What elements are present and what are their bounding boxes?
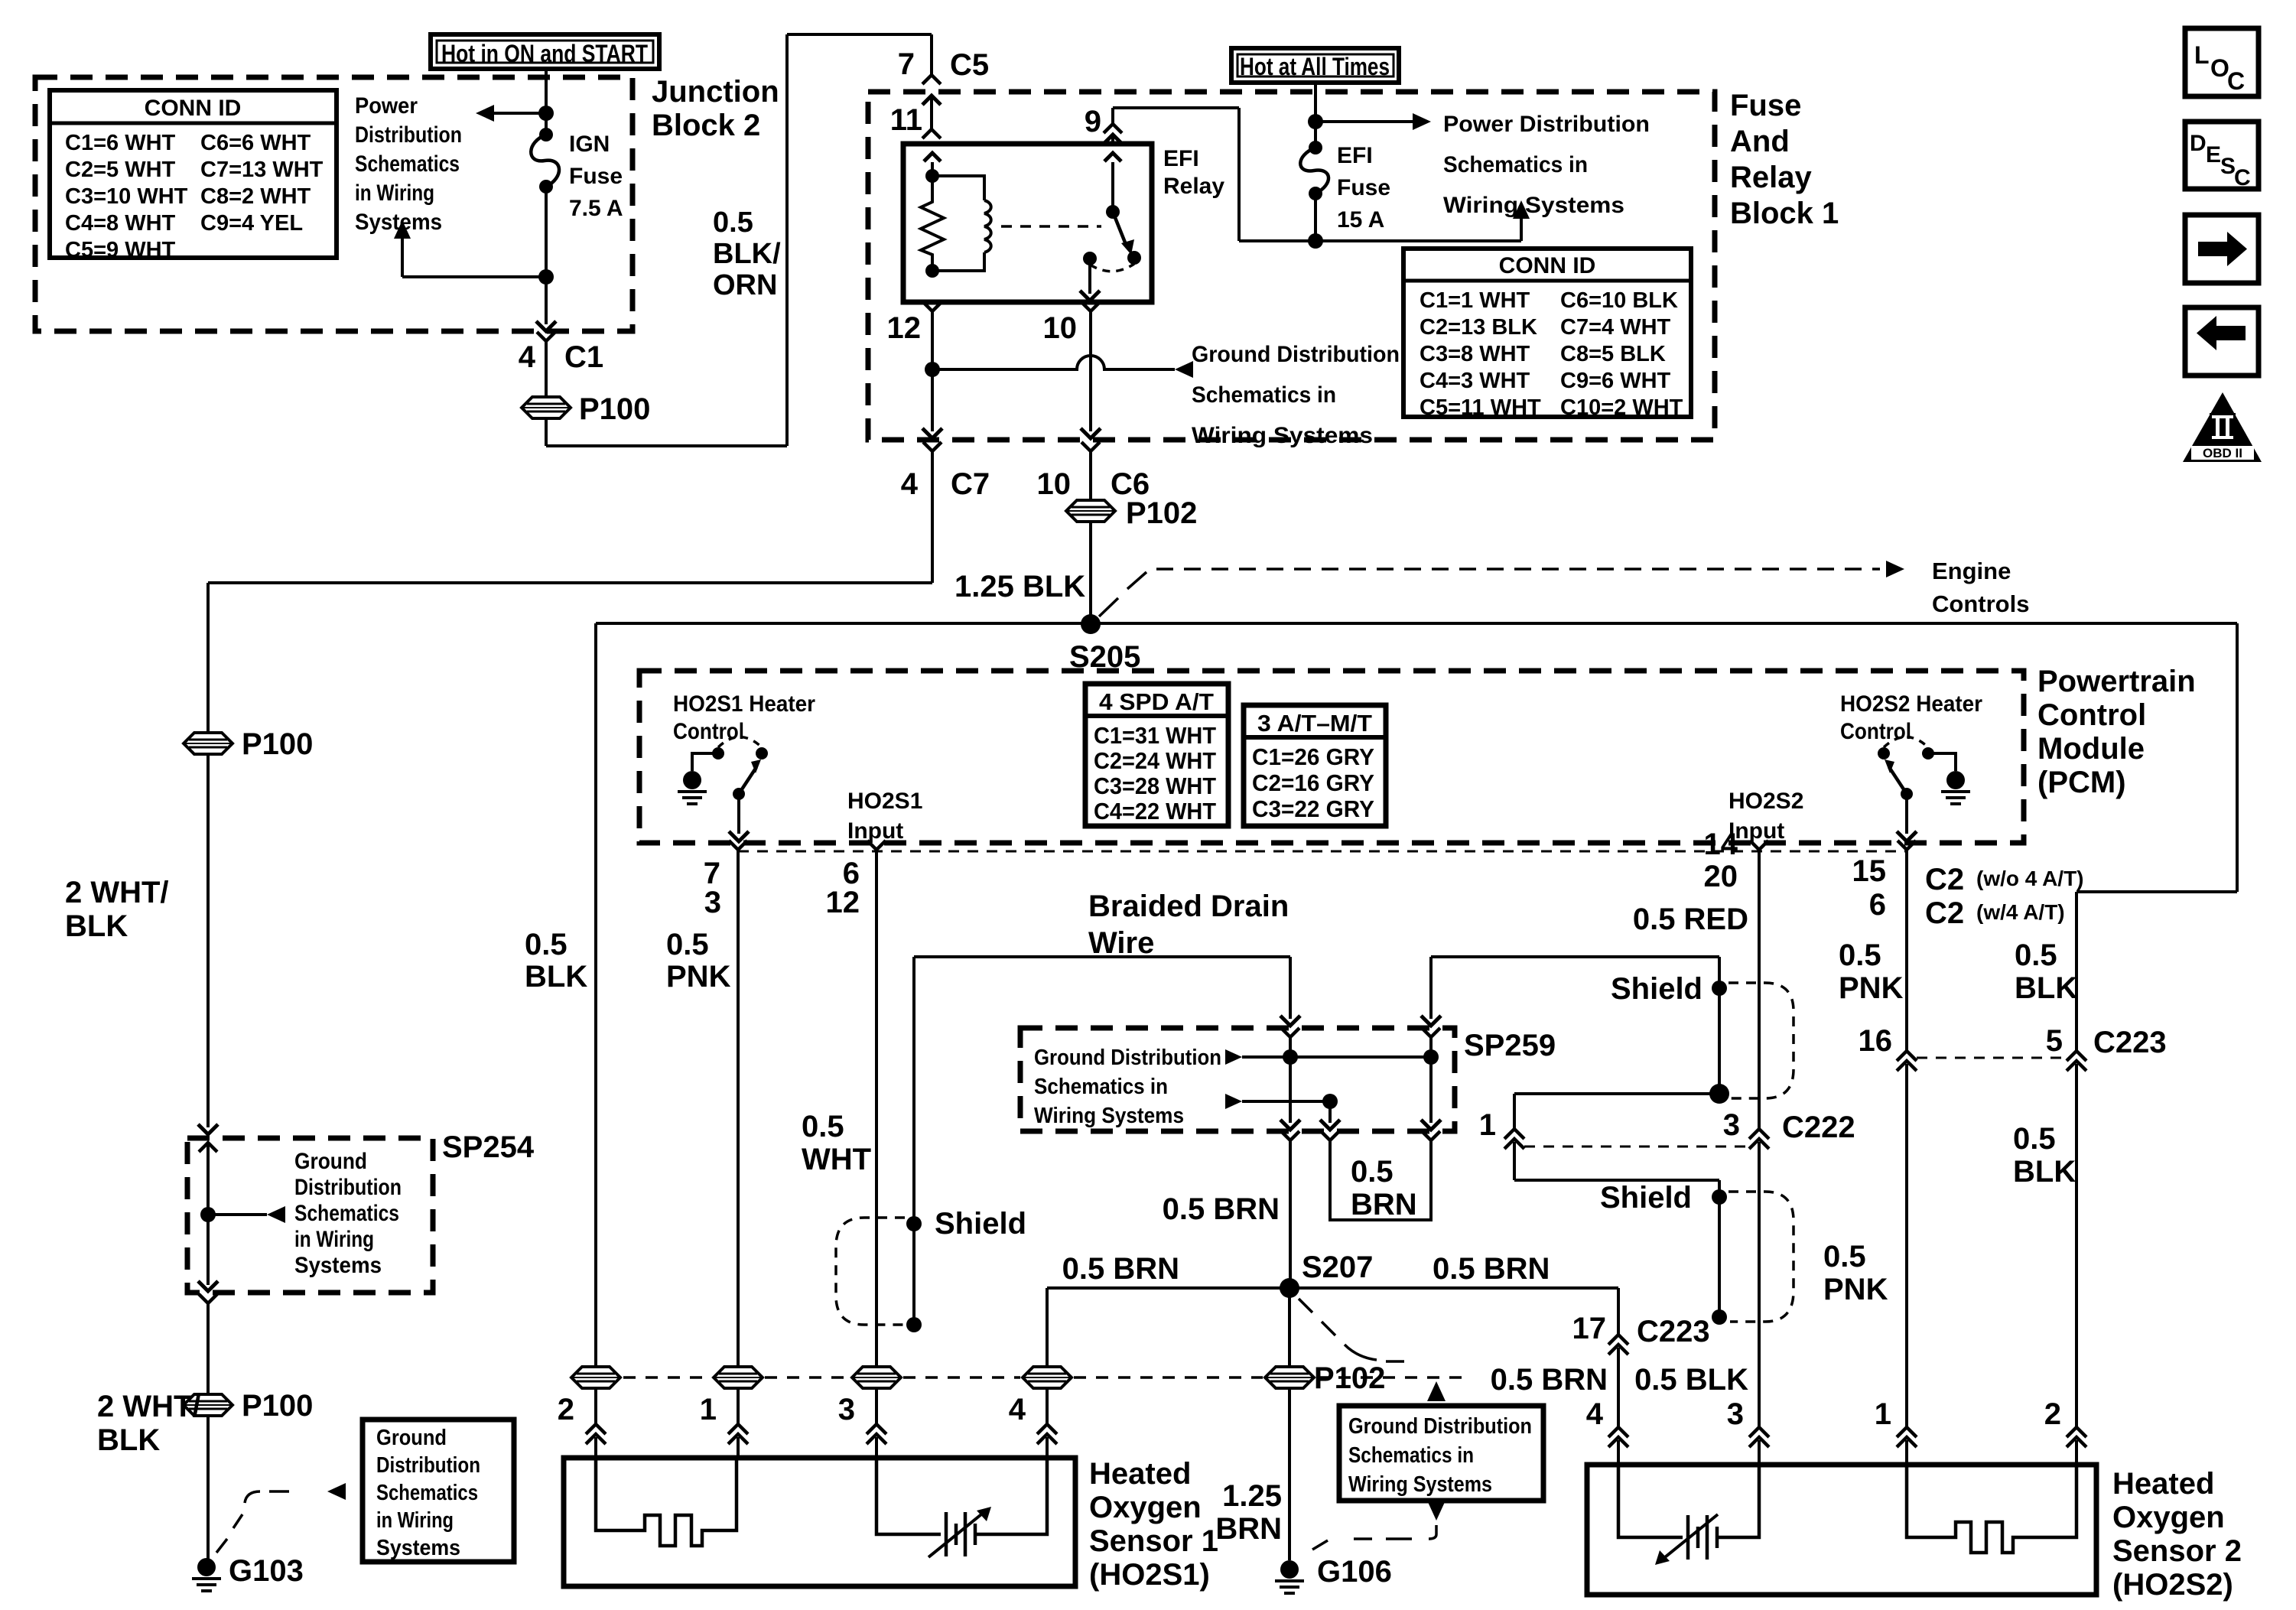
dashed leader S207 to ground note [1299, 1299, 1312, 1312]
svg-text:C223: C223 [2093, 1026, 2167, 1059]
svg-text:C2: C2 [1925, 896, 1964, 930]
svg-text:0.5 BRN: 0.5 BRN [1491, 1363, 1608, 1397]
svg-text:BLK: BLK [2015, 971, 2077, 1005]
svg-text:Schematics in: Schematics in [1443, 152, 1588, 177]
shield node upper (HO2S1) [906, 1216, 922, 1231]
svg-text:C2=16 GRY: C2=16 GRY [1252, 769, 1374, 796]
flag box: Hot at All Times [1231, 48, 1399, 83]
connector PCM pin 6/12 (HO2S1 input) [867, 841, 886, 850]
svg-text:3: 3 [1727, 1397, 1744, 1431]
wire 0.5 PNK to HO2S1 pin 1 [737, 866, 740, 1367]
svg-text:Ground Distribution: Ground Distribution [1034, 1046, 1221, 1070]
svg-text:C4=3 WHT: C4=3 WHT [1420, 369, 1530, 393]
svg-text:EFI: EFI [1337, 143, 1373, 168]
ground G106 [1280, 1560, 1299, 1579]
pin 11 male connector into block [930, 96, 933, 129]
icon box DESC [2185, 122, 2259, 189]
svg-text:C2: C2 [1925, 863, 1964, 896]
tables 4 SPD A/T connector ids [1085, 684, 1228, 826]
svg-text:Engine: Engine [1932, 558, 2011, 584]
svg-text:PNK: PNK [666, 960, 731, 994]
wire C1 to P100 [545, 361, 548, 396]
svg-text:Fuse: Fuse [1337, 175, 1390, 200]
svg-text:4: 4 [519, 340, 536, 374]
relay pin 10 wire inside box [1088, 259, 1091, 294]
svg-text:P100: P100 [242, 727, 313, 761]
arrow up to note [1520, 218, 1523, 241]
U loop 0.5 BRN below SP259 [1321, 1131, 1339, 1140]
svg-text:3 A/T–M/T: 3 A/T–M/T [1257, 710, 1372, 737]
svg-text:C4=8 WHT: C4=8 WHT [65, 211, 176, 236]
wire pin 12 to block edge [931, 369, 934, 431]
HO2S1 pin stubs and chevrons [594, 1388, 597, 1424]
svg-text:1: 1 [1479, 1108, 1496, 1142]
connector C1 pin 4 (Junction Block 2 output) [537, 332, 555, 341]
SP259 bus row 1 [1225, 1049, 1242, 1065]
relay switch common (pin 9) [1106, 205, 1120, 219]
connector pass-through (HO2S1 pin 3 wire) [852, 1367, 901, 1388]
svg-text:Junction: Junction [652, 75, 779, 109]
svg-text:Ground: Ground [294, 1149, 367, 1174]
svg-text:Distribution: Distribution [376, 1453, 480, 1478]
svg-text:0.5: 0.5 [1351, 1155, 1394, 1189]
relay contact dashed arc [1090, 264, 1134, 272]
wire C222 pin1 to lower shield [1514, 1179, 1719, 1182]
svg-text:0.5 BLK: 0.5 BLK [1634, 1363, 1748, 1397]
relay switch blade with arrow [1113, 212, 1125, 242]
relay box EFI Relay [903, 144, 1152, 302]
svg-text:Hot at All Times: Hot at All Times [1240, 53, 1390, 80]
svg-text:And: And [1730, 125, 1790, 158]
shield node (HO2S2 lower) [1712, 1189, 1727, 1205]
svg-text:E: E [2206, 142, 2221, 168]
relay coil [932, 176, 984, 200]
svg-text:C3=22 GRY: C3=22 GRY [1252, 795, 1374, 822]
svg-text:C10=2 WHT: C10=2 WHT [1560, 395, 1683, 420]
svg-text:HO2S1: HO2S1 [847, 789, 922, 814]
svg-text:Ground Distribution: Ground Distribution [1348, 1414, 1532, 1439]
connector P102 (pass-through) [1066, 500, 1115, 522]
arrow to Power Distribution Schematics (right) [1315, 120, 1413, 123]
svg-text:Wiring Systems: Wiring Systems [1034, 1104, 1184, 1128]
inline connector row dashed gang line [623, 1376, 711, 1379]
svg-text:1: 1 [1875, 1397, 1891, 1431]
svg-text:BRN: BRN [1351, 1188, 1417, 1221]
svg-text:CONN ID: CONN ID [1499, 253, 1596, 278]
svg-text:1.25: 1.25 [1222, 1479, 1282, 1513]
svg-text:S207: S207 [1302, 1251, 1373, 1284]
svg-text:Heated: Heated [2112, 1467, 2214, 1501]
svg-text:BLK: BLK [65, 909, 128, 943]
icon box LOC [2185, 28, 2259, 96]
shield node lower (HO2S1) [906, 1317, 922, 1332]
svg-text:EFI: EFI [1163, 146, 1199, 171]
svg-text:C1=1 WHT: C1=1 WHT [1420, 288, 1530, 313]
svg-text:C2=13 BLK: C2=13 BLK [1420, 315, 1537, 340]
svg-text:3: 3 [704, 886, 721, 919]
wire P100 down-right-up to C5 (0.5 BLK/ORN) [545, 418, 548, 446]
svg-text:C1: C1 [564, 340, 603, 374]
fuse EFI Fuse 15 A [1309, 141, 1322, 154]
wire main bus right side down to C223 pin 5 (0.5 BLK) [2236, 623, 2239, 892]
shield dashed capsule around 0.5 BLK wire (lower) [1729, 1192, 1794, 1322]
note box: Ground Distribution Schematics in Wiring Systems (S207/G106) [1339, 1406, 1543, 1501]
connector P100 (pass-through) [522, 397, 571, 418]
svg-text:0.5 RED: 0.5 RED [1633, 903, 1748, 936]
svg-text:0.5: 0.5 [802, 1110, 844, 1143]
svg-text:Schematics in: Schematics in [1034, 1075, 1168, 1099]
shield dashed capsule around 0.5 RED wire (upper) [1729, 983, 1794, 1098]
wire below EFI fuse [1314, 194, 1317, 241]
svg-text:C1=31 WHT: C1=31 WHT [1094, 722, 1216, 749]
wire C222 pin 3 to HO2S2 pin 3 (0.5 BLK) [1758, 1142, 1761, 1427]
svg-text:BRN: BRN [1215, 1512, 1282, 1546]
svg-text:20: 20 [1704, 860, 1738, 893]
connector P100 (lower left) [184, 1394, 233, 1416]
shield drain link (HO2S2 upper) [1718, 988, 1721, 1089]
dashed leader from G103 to ground note [216, 1539, 227, 1553]
svg-text:(w/o 4 A/T): (w/o 4 A/T) [1976, 867, 2084, 890]
connector C223 pin 17 [1617, 1288, 1620, 1335]
svg-text:10: 10 [1037, 467, 1072, 501]
SP259 bus row 2 [1225, 1094, 1242, 1109]
svg-text:12: 12 [826, 886, 860, 919]
connector PCM pin 15/6 (HO2S2 heater) [1898, 841, 1916, 850]
SP259 wire 1 (drain) [1281, 1028, 1299, 1037]
svg-text:0.5: 0.5 [1823, 1240, 1866, 1273]
svg-text:(PCM): (PCM) [2037, 766, 2126, 799]
svg-text:10: 10 [1043, 311, 1078, 345]
connector pass-through (HO2S1 pin 2 wire) [571, 1367, 620, 1388]
svg-text:IGN: IGN [569, 132, 610, 157]
svg-text:Input: Input [847, 818, 903, 844]
svg-text:Schematics: Schematics [355, 151, 460, 177]
svg-text:9: 9 [1085, 105, 1101, 138]
svg-text:Control: Control [1840, 719, 1911, 744]
svg-text:Shield: Shield [1600, 1181, 1692, 1215]
svg-text:Distribution: Distribution [294, 1175, 402, 1200]
shield drain link [912, 1224, 915, 1320]
svg-text:Schematics: Schematics [294, 1201, 399, 1226]
svg-text:C3=28 WHT: C3=28 WHT [1094, 772, 1216, 799]
relay coil feed arrow (pin 11 side) [931, 162, 934, 176]
S207 horizontal bus 0.5 BRN [1047, 1286, 1618, 1290]
Powertrain Control Module dashed box [639, 671, 2024, 843]
icon box arrow right [2185, 215, 2259, 283]
svg-text:Oxygen: Oxygen [1089, 1491, 1202, 1524]
svg-text:Powertrain: Powertrain [2037, 665, 2196, 698]
svg-text:4: 4 [1009, 1393, 1026, 1426]
wire S207 to G106 (1.25 BRN) [1288, 1288, 1291, 1367]
connector P102 (1.25 BRN) [1265, 1367, 1314, 1388]
wire 0.5 PNK to C223 pin 16 [1905, 866, 1908, 1051]
svg-text:P100: P100 [242, 1389, 313, 1423]
svg-text:PNK: PNK [1839, 971, 1904, 1005]
svg-text:1.25 BLK: 1.25 BLK [954, 570, 1085, 603]
svg-text:0.5: 0.5 [2015, 938, 2057, 972]
shield drain link (HO2S2 lower) [1718, 1197, 1721, 1311]
svg-text:C4=22 WHT: C4=22 WHT [1094, 798, 1216, 825]
wire 0.5 WHT to HO2S1 pin 3 [875, 866, 878, 1367]
svg-text:C8=5 BLK: C8=5 BLK [1560, 342, 1666, 366]
C222 gang dashed line [1524, 1146, 1750, 1148]
wire shield junction to C222 pin 1 [1514, 1092, 1719, 1095]
pin 12 connector below relay [923, 302, 941, 311]
svg-text:Block 2: Block 2 [652, 109, 760, 142]
braided drain wire bus [914, 955, 1290, 958]
node S207 [1280, 1278, 1299, 1298]
svg-text:C3=10 WHT: C3=10 WHT [65, 184, 188, 209]
svg-text:Controls: Controls [1932, 590, 2029, 617]
svg-text:Hot in ON and START: Hot in ON and START [441, 40, 648, 67]
wire 0.5 RED to C222 pin 3 [1758, 866, 1761, 1129]
svg-text:S: S [2220, 154, 2236, 179]
wire below IGN fuse [545, 187, 548, 277]
svg-text:D: D [2190, 131, 2207, 156]
svg-text:0.5 BRN: 0.5 BRN [1163, 1192, 1280, 1226]
svg-text:C1=26 GRY: C1=26 GRY [1252, 743, 1374, 770]
svg-text:0.5: 0.5 [2013, 1122, 2056, 1156]
drain drop to HO2S1 shield [912, 957, 915, 1218]
svg-text:P100: P100 [579, 392, 650, 426]
svg-text:Wiring Systems: Wiring Systems [1443, 193, 1624, 218]
relay actuation dashed link [1001, 225, 1101, 228]
drain entering SP259 [1289, 957, 1292, 1019]
svg-text:CONN ID: CONN ID [145, 96, 242, 121]
component box Heated Oxygen Sensor 2 (HO2S2) [1587, 1465, 2096, 1595]
wire C7 to left riser (1.25 BLK) [931, 476, 934, 583]
svg-text:15: 15 [1852, 854, 1887, 888]
svg-text:BLK: BLK [97, 1423, 160, 1457]
PCM connector C1 dashed gang line [738, 851, 1907, 853]
svg-text:Power: Power [355, 93, 418, 119]
svg-text:C1=6 WHT: C1=6 WHT [65, 131, 176, 155]
connector pass-through (HO2S1 pin 4 wire) [1023, 1367, 1072, 1388]
svg-text:4: 4 [1586, 1397, 1604, 1431]
wire Hot at All Times to EFI fuse [1314, 83, 1317, 148]
wire S207 to HO2S1 pin 4 [1046, 1288, 1049, 1367]
relay terminal connector upper [922, 129, 941, 138]
wire from Hot in ON and START to IGN fuse [545, 69, 548, 135]
svg-text:BLK: BLK [525, 960, 587, 994]
svg-text:PNK: PNK [1823, 1273, 1888, 1306]
table 3 A/T-M/T connector ids [1244, 705, 1386, 826]
relay node top left [925, 169, 939, 183]
svg-text:4: 4 [901, 467, 919, 501]
C223 gang dashed line [1917, 1057, 2067, 1059]
svg-text:C9=6 WHT: C9=6 WHT [1560, 369, 1671, 393]
branch to Ground Distribution note with hop over pin10 wire [932, 356, 1175, 369]
svg-text:Schematics: Schematics [376, 1481, 478, 1505]
CONN ID table (Junction Block 2) [50, 90, 337, 258]
svg-text:Oxygen: Oxygen [2112, 1501, 2225, 1534]
wire pin 9 to EFI fuse junction [1113, 106, 1239, 109]
svg-text:SP259: SP259 [1464, 1029, 1556, 1062]
connector PCM pin 14/20 (HO2S2 input) [1750, 841, 1768, 850]
svg-text:G106: G106 [1317, 1555, 1392, 1589]
HO2S1 sensor element [876, 1458, 941, 1534]
branch arrow up to Power Distribution note [402, 275, 546, 278]
node S205 on main 1.25 BLK bus [596, 622, 2237, 625]
svg-text:0.5: 0.5 [525, 928, 567, 961]
svg-text:in Wiring: in Wiring [294, 1227, 374, 1252]
svg-text:Schematics in: Schematics in [1348, 1443, 1474, 1468]
svg-text:Wiring Systems: Wiring Systems [1192, 423, 1373, 448]
connector C222 pin 1 [1504, 1129, 1524, 1139]
svg-text:Ground Distribution: Ground Distribution [1192, 342, 1400, 367]
svg-text:Wiring Systems: Wiring Systems [1348, 1472, 1492, 1497]
svg-text:16: 16 [1859, 1024, 1893, 1058]
svg-text:2: 2 [2044, 1397, 2061, 1431]
HO2S2 sensor element [1618, 1465, 1683, 1537]
wire C223-16 to HO2S2 pin 1 (0.5 PNK) [1905, 1064, 1908, 1427]
svg-text:C2=24 WHT: C2=24 WHT [1094, 747, 1216, 774]
wire SP259 right riser to HO2S2 shield bus [1429, 957, 1433, 1019]
svg-text:2 WHT/: 2 WHT/ [97, 1390, 201, 1423]
svg-text:Heated: Heated [1089, 1457, 1191, 1491]
node on IGN feed [538, 106, 554, 121]
svg-text:Distribution: Distribution [355, 122, 462, 148]
svg-text:C3=8 WHT: C3=8 WHT [1420, 342, 1530, 366]
svg-text:Relay: Relay [1730, 161, 1812, 194]
svg-text:C6=10 BLK: C6=10 BLK [1560, 288, 1678, 313]
svg-text:C5=9 WHT: C5=9 WHT [65, 238, 176, 262]
svg-text:Relay: Relay [1163, 174, 1224, 199]
svg-text:5: 5 [2046, 1024, 2063, 1058]
splice SP259 dashed box [1020, 1028, 1455, 1131]
svg-text:Systems: Systems [294, 1253, 382, 1278]
svg-text:Schematics in: Schematics in [1192, 382, 1336, 408]
svg-text:OBD II: OBD II [2203, 446, 2242, 460]
svg-text:Wire: Wire [1088, 926, 1154, 960]
svg-text:0.5 BRN: 0.5 BRN [1433, 1252, 1550, 1286]
relay node bottom left [925, 264, 939, 278]
svg-text:Control: Control [2037, 698, 2146, 732]
wire to JB2 boundary with arrow [545, 277, 548, 324]
arrow out of note box [1428, 1502, 1445, 1521]
connector PCM pin 7/3 (HO2S1 heater) [729, 841, 747, 850]
svg-text:C7: C7 [951, 467, 990, 501]
pin 10 connector below relay [1081, 302, 1100, 311]
HO2S2 pin stubs and chevrons [1608, 1427, 1628, 1437]
svg-text:BLK: BLK [2013, 1155, 2076, 1189]
svg-text:Shield: Shield [1611, 972, 1702, 1006]
svg-text:G103: G103 [229, 1554, 304, 1588]
svg-text:(HO2S1): (HO2S1) [1089, 1558, 1210, 1592]
svg-text:Ground: Ground [376, 1426, 447, 1450]
wire P100 to G103 (2 WHT/BLK) [207, 1416, 210, 1560]
svg-text:7: 7 [898, 47, 915, 81]
svg-text:Braided Drain: Braided Drain [1088, 890, 1289, 923]
node EFI feed [1308, 114, 1323, 129]
svg-text:0.5: 0.5 [713, 207, 753, 239]
connector C5 pin 7 (into Fuse And Relay Block 1) [922, 75, 941, 84]
node below IGN fuse [538, 269, 554, 285]
wire P102 to G106 [1288, 1388, 1291, 1560]
connector below SP254 [199, 1294, 217, 1303]
svg-text:3: 3 [838, 1393, 855, 1426]
svg-text:HO2S2 Heater: HO2S2 Heater [1840, 691, 1982, 717]
icon OBD II triangle [2183, 392, 2262, 462]
svg-text:Fuse: Fuse [1730, 89, 1801, 122]
shield dashed capsule around HO2S1 signal wire [836, 1218, 905, 1325]
svg-text:C9=4 YEL: C9=4 YEL [200, 211, 303, 236]
SP259 wire 3 (right, from shield bus) [1422, 1028, 1440, 1037]
svg-text:Fuse: Fuse [569, 164, 623, 189]
junction drain to C222 pin 1 [1709, 1084, 1729, 1104]
dashed leader note box to G106 [1429, 1525, 1436, 1539]
pin 9 connector above relay [1111, 108, 1114, 124]
svg-text:C6=6 WHT: C6=6 WHT [200, 131, 311, 155]
svg-text:17: 17 [1572, 1312, 1607, 1345]
svg-text:11: 11 [890, 103, 922, 137]
HO2S2 heater element [1907, 1465, 2076, 1553]
svg-text:BLK/: BLK/ [713, 238, 781, 270]
svg-text:C5: C5 [950, 48, 989, 82]
fuse IGN Fuse 7.5 A [539, 128, 553, 141]
connector pass-through (HO2S1 pin 1 wire) [714, 1367, 763, 1388]
svg-text:C: C [2234, 165, 2251, 190]
svg-text:HO2S2: HO2S2 [1729, 789, 1803, 814]
wire inside SP254 [199, 1143, 217, 1152]
svg-text:C222: C222 [1782, 1111, 1855, 1144]
connector C222 pin 3 [1749, 1129, 1769, 1139]
SP259 wire 2 (middle) [1328, 1101, 1332, 1123]
node below EFI fuse [1308, 233, 1323, 249]
svg-text:P102: P102 [1314, 1361, 1385, 1395]
note box: Ground Distribution Schematics in Wiring Systems (G103) [363, 1420, 514, 1562]
node SP254 [200, 1207, 216, 1222]
svg-text:C7=13 WHT: C7=13 WHT [200, 158, 324, 182]
svg-text:ORN: ORN [713, 269, 777, 301]
svg-text:Power Distribution: Power Distribution [1443, 112, 1650, 137]
dashed leader to Engine Controls [1099, 598, 1118, 616]
svg-text:(HO2S2): (HO2S2) [2112, 1568, 2233, 1602]
svg-text:15 A: 15 A [1337, 207, 1384, 233]
shield node at C223 [1712, 1309, 1727, 1325]
relay switch contacts [1083, 252, 1097, 265]
svg-text:6: 6 [1869, 888, 1886, 922]
shield node (HO2S2 upper) [1712, 981, 1727, 996]
svg-text:Control: Control [673, 719, 744, 744]
svg-text:C8=2 WHT: C8=2 WHT [200, 184, 311, 209]
svg-text:(w/4 A/T): (w/4 A/T) [1976, 900, 2065, 924]
svg-text:0.5: 0.5 [1839, 938, 1881, 972]
CONN ID table (Fuse And Relay Block 1) [1403, 249, 1691, 417]
svg-text:C7=4 WHT: C7=4 WHT [1560, 315, 1671, 340]
wire C223-17 to HO2S2 pin 4 (0.5 BRN) [1617, 1348, 1620, 1427]
svg-text:2: 2 [558, 1393, 574, 1426]
arrow to Power Distribution Schematics [489, 112, 546, 115]
svg-text:P102: P102 [1126, 496, 1197, 530]
svg-text:WHT: WHT [802, 1143, 871, 1176]
svg-text:Sensor 2: Sensor 2 [2112, 1534, 2242, 1568]
connector C6 pin 10 [1081, 442, 1100, 451]
svg-text:2 WHT/: 2 WHT/ [65, 876, 169, 909]
svg-text:C2=5 WHT: C2=5 WHT [65, 158, 176, 182]
svg-text:SP254: SP254 [442, 1130, 535, 1164]
connector C223 pins 16 and 5 [1897, 1051, 1917, 1061]
connector C7 pin 4 [923, 442, 941, 451]
svg-text:C5=11 WHT: C5=11 WHT [1420, 395, 1541, 420]
svg-text:in Wiring: in Wiring [355, 181, 434, 206]
node pin 12 branch [925, 362, 940, 377]
wire 0.5 BLK bus-left to HO2S1 pin 2 [594, 623, 597, 1367]
svg-text:Systems: Systems [376, 1536, 460, 1560]
wire C223-5 to HO2S2 pin 2 (0.5 BLK) [2075, 1064, 2078, 1427]
svg-text:Sensor 1: Sensor 1 [1089, 1524, 1218, 1558]
Fuse And Relay Block 1 dashed box [868, 92, 1715, 440]
